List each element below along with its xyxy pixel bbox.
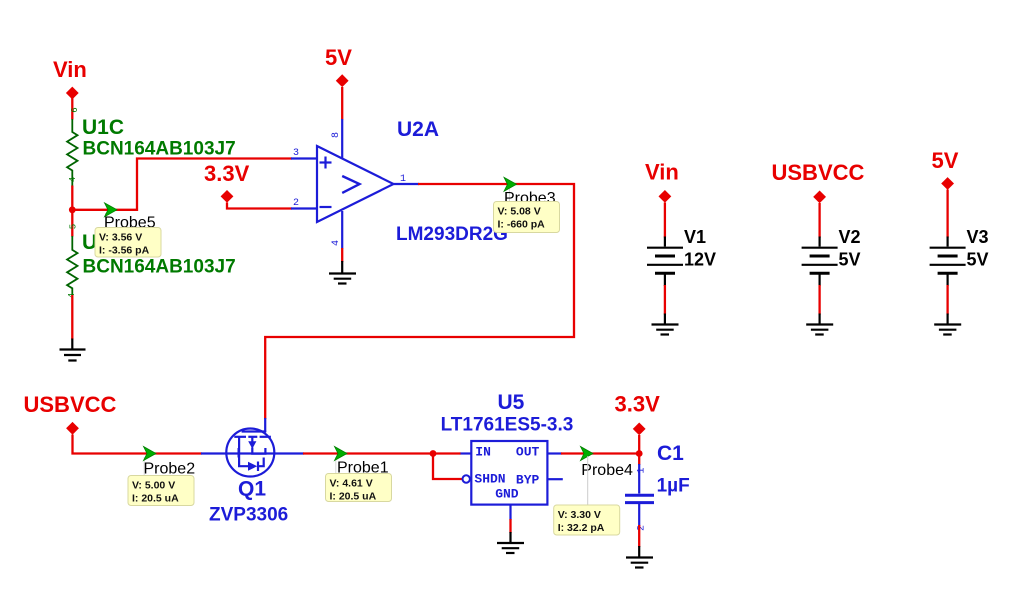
pin number 2 (293, 198, 299, 209)
ground (V1) (652, 314, 679, 335)
svg-text:1: 1 (637, 467, 648, 473)
wire junction to SHDN (433, 454, 463, 480)
svg-text:V2: V2 (839, 227, 861, 247)
svg-text:V: 5.08 V: V: 5.08 V (498, 206, 541, 218)
label U1D (82, 231, 124, 254)
wire R1 bottom to node (71, 186, 73, 237)
value LM293DR2G (396, 224, 508, 245)
svg-text:4: 4 (68, 177, 78, 182)
wire output net to gate (265, 184, 574, 419)
svg-text:V: 5.00 V: V: 5.00 V (132, 480, 175, 492)
probe Probe4 label (581, 462, 633, 479)
probe Probe3 arrow (504, 177, 517, 191)
svg-text:C1: C1 (657, 442, 684, 465)
wire V1 to ground (664, 285, 666, 315)
svg-text:LT1761ES5-3.3: LT1761ES5-3.3 (441, 415, 574, 436)
svg-text:U5: U5 (498, 391, 525, 414)
pin number 8 (331, 132, 342, 138)
wire V2 flag to battery (818, 203, 820, 238)
svg-text:V: 4.61 V: V: 4.61 V (330, 478, 373, 490)
svg-text:2: 2 (293, 198, 299, 209)
label V3 (967, 227, 989, 247)
regulator U5 (463, 441, 563, 520)
wire op-amp output (394, 183, 420, 185)
pin number 3 (293, 148, 299, 159)
wire IN red portion (433, 452, 461, 454)
wire Q1 drain to U5 (303, 452, 433, 454)
ground (V2) (806, 314, 833, 335)
wire gate lead (264, 418, 266, 432)
label U1C (82, 116, 124, 139)
value LT1761ES5-3.3 (441, 415, 574, 436)
svg-text:Q1: Q1 (238, 478, 266, 501)
net flag USBVCC (bottom-left) (24, 392, 117, 435)
svg-text:U2A: U2A (397, 118, 439, 141)
ground (V3) (934, 314, 961, 335)
battery V2 (802, 237, 838, 287)
svg-text:BCN164AB103J7: BCN164AB103J7 (83, 139, 236, 160)
label U2A (397, 118, 439, 141)
svg-text:Vin: Vin (53, 57, 87, 82)
wire node to corner (probe5 branch) (72, 159, 292, 210)
wire C1 to ground (638, 525, 640, 547)
svg-text:V1: V1 (684, 227, 706, 247)
wire V1 flag to battery (664, 203, 666, 238)
probe Probe5 arrow (105, 203, 118, 217)
svg-text:ZVP3306: ZVP3306 (209, 505, 288, 526)
wire V3 to ground (946, 285, 948, 315)
net flag USBVCC (V2) (772, 160, 865, 203)
value 12V (684, 250, 716, 270)
svg-text:OUT: OUT (516, 444, 540, 459)
ground (C1) (626, 546, 653, 568)
net flag Vin (top-left) (53, 57, 87, 99)
svg-text:BCN164AB103J7: BCN164AB103J7 (83, 257, 236, 278)
svg-text:SHDN: SHDN (474, 472, 505, 487)
value 1uF (657, 476, 690, 497)
transistor Q1 (201, 429, 304, 477)
svg-text:I: 32.2 pA: I: 32.2 pA (558, 522, 605, 534)
svg-text:BYP: BYP (516, 473, 540, 488)
svg-text:V3: V3 (967, 227, 989, 247)
wire R2 bottom to ground (71, 295, 73, 340)
wire V3 flag to battery (946, 190, 948, 238)
net flag 3.3V (inverting input) (204, 161, 250, 203)
probe Probe3 readout box (494, 202, 560, 233)
wire Vin flag to R1 (71, 98, 73, 120)
svg-text:3: 3 (293, 148, 299, 159)
svg-text:V: 3.30 V: V: 3.30 V (558, 509, 601, 521)
probe Probe1 arrow (335, 447, 348, 461)
probe Probe5 readout box (95, 228, 161, 258)
probe Probe2 arrow (144, 447, 157, 461)
net flag 3.3V (output) (615, 392, 661, 436)
wire op-amp pin2 lead (291, 207, 317, 209)
net flag 5V (op-amp supply) (325, 45, 352, 87)
value BCN164AB103J7 (R2) (83, 257, 236, 278)
probe Probe3 leader line (509, 188, 511, 202)
svg-text:I: -3.56 pA: I: -3.56 pA (99, 245, 150, 257)
wire op-amp pin8 lead (341, 119, 343, 159)
svg-text:5V: 5V (325, 45, 352, 70)
pin number 4 (331, 240, 342, 246)
svg-text:U1C: U1C (82, 116, 124, 139)
value ZVP3306 (209, 505, 288, 526)
resistor U1C (67, 107, 80, 186)
svg-text:USBVCC: USBVCC (24, 392, 117, 417)
value BCN164AB103J7 (R1) (83, 139, 236, 160)
battery V1 (647, 237, 683, 287)
svg-text:Probe4: Probe4 (581, 462, 633, 479)
battery V3 (930, 237, 966, 287)
svg-text:6: 6 (70, 107, 80, 112)
ground (U5) (497, 532, 524, 553)
wire USBVCC to Q1 (73, 435, 203, 454)
probe Probe1 leader line (335, 457, 337, 474)
label Q1 (238, 478, 266, 501)
ground (divider) (60, 339, 86, 361)
op-amp U2A (317, 146, 394, 249)
svg-text:5V: 5V (967, 250, 989, 270)
capacitor C1 (625, 464, 654, 531)
svg-text:USBVCC: USBVCC (772, 160, 865, 185)
svg-text:I: 20.5 uA: I: 20.5 uA (132, 493, 179, 505)
wire 3.3V flag to node (638, 435, 640, 465)
value 5V (V3) (967, 250, 989, 270)
svg-text:LM293DR2G: LM293DR2G (396, 224, 508, 245)
pin number 1 (400, 174, 406, 185)
probe Probe4 readout box (554, 505, 620, 535)
svg-text:1µF: 1µF (657, 476, 690, 497)
svg-text:5: 5 (69, 224, 79, 229)
svg-text:12V: 12V (684, 250, 716, 270)
svg-text:5V: 5V (839, 250, 861, 270)
label U5 (498, 391, 525, 414)
probe Probe2 label (144, 461, 196, 478)
wire op-amp pin3 lead (291, 157, 317, 159)
wire V2 to ground (818, 285, 820, 315)
label V2 (839, 227, 861, 247)
svg-text:I: 20.5 uA: I: 20.5 uA (330, 491, 377, 503)
probe Probe1 readout box (326, 474, 392, 503)
svg-text:5V: 5V (932, 148, 959, 173)
wire op-amp pin4 to ground (341, 248, 343, 262)
probe Probe5 leader line (105, 213, 107, 228)
node U5 input junction (430, 450, 437, 457)
svg-text:3.3V: 3.3V (615, 392, 661, 417)
wire 3.3V flag to pin2 (227, 203, 292, 209)
probe Probe4 arrow (581, 447, 594, 461)
ground (op-amp) (329, 261, 356, 284)
svg-text:I: -660 pA: I: -660 pA (498, 219, 546, 231)
net flag Vin (V1) (645, 160, 679, 203)
probe Probe4 leader line (587, 456, 589, 505)
net flag 5V (V3) (932, 148, 959, 190)
svg-text:IN: IN (475, 444, 491, 459)
svg-text:8: 8 (331, 132, 342, 138)
svg-text:3.3V: 3.3V (204, 161, 250, 186)
wire U5 GND to ground (509, 519, 511, 533)
svg-text:4: 4 (331, 240, 342, 246)
probe Probe2 leader line (143, 457, 145, 476)
svg-text:V: 3.56 V: V: 3.56 V (99, 232, 142, 244)
probe Probe1 label (337, 460, 389, 477)
value 5V (V2) (839, 250, 861, 270)
svg-text:Vin: Vin (645, 160, 679, 185)
probe Probe2 readout box (128, 476, 194, 506)
wire U5 IN lead (460, 452, 472, 454)
svg-text:GND: GND (495, 487, 519, 502)
node C1 junction (636, 450, 643, 457)
probe Probe5 label (104, 215, 156, 232)
wire 5V flag to op-amp pin8 (341, 87, 343, 120)
probe Probe3 label (504, 190, 556, 207)
resistor U1D (67, 224, 79, 298)
svg-text:Probe2: Probe2 (144, 461, 196, 478)
node divider junction (69, 206, 76, 213)
wire U5 OUT to C1 node (561, 452, 639, 454)
label C1 (657, 442, 684, 465)
label V1 (684, 227, 706, 247)
